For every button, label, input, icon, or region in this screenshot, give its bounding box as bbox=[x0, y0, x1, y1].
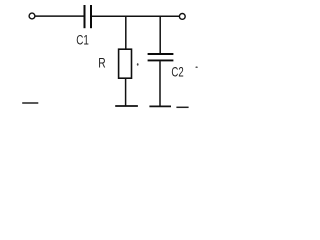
svg-text:C1: C1 bbox=[76, 32, 89, 48]
svg-text:C2: C2 bbox=[171, 64, 183, 80]
svg-text:R: R bbox=[98, 55, 106, 71]
wire: node to resistor top lead bbox=[125, 16, 127, 49]
noise speck right of resistor bbox=[137, 63, 139, 66]
wire: resistor bottom lead bbox=[125, 78, 127, 106]
input terminal (left, open circle) bbox=[29, 13, 35, 19]
noise speck right of C2 label bbox=[195, 66, 197, 68]
ground bar under resistor R bbox=[115, 105, 138, 107]
ground bar under capacitor C2 bbox=[149, 105, 171, 107]
wire: C1 right plate to output terminal, top rail bbox=[92, 15, 179, 17]
resistor R body bbox=[119, 49, 132, 78]
capacitor C1 left plate bbox=[84, 5, 86, 28]
ground dash (bottom right rail stub) bbox=[176, 106, 188, 108]
ground dash (bottom left rail stub) bbox=[22, 102, 38, 104]
wire: node to capacitor C2 top lead bbox=[159, 16, 161, 53]
wire: capacitor C2 bottom lead bbox=[159, 61, 161, 106]
capacitor C2 bottom plate bbox=[148, 59, 174, 61]
output terminal (right, open circle) bbox=[179, 14, 185, 20]
wire: input terminal to C1 left plate bbox=[35, 15, 83, 17]
capacitor C1 right plate bbox=[90, 5, 92, 28]
capacitor C2 top plate bbox=[148, 53, 174, 55]
